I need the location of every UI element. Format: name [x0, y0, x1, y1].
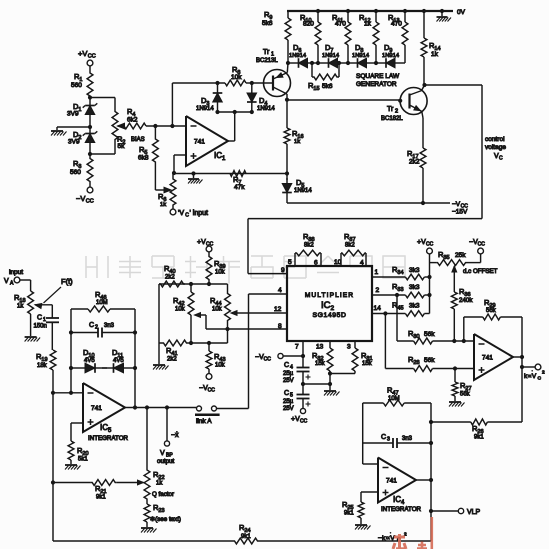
svg-text:1k: 1k	[364, 21, 372, 28]
IC3 output node	[513, 356, 522, 358]
svg-text:25µ: 25µ	[283, 371, 294, 377]
svg-text:1N914: 1N914	[294, 188, 312, 194]
transistor Tr1 BC213L	[264, 70, 291, 97]
ground stub	[191, 171, 195, 175]
svg-text:5k1: 5k1	[78, 457, 88, 463]
svg-text:−ẋ: −ẋ	[171, 432, 179, 439]
link A terminals	[197, 406, 202, 411]
svg-text:7: 7	[295, 344, 299, 351]
node D2-R3	[88, 152, 92, 156]
svg-text:3k3: 3k3	[409, 303, 420, 310]
resistor R24	[233, 538, 259, 544]
svg-text:control: control	[485, 136, 505, 143]
resistor R8	[172, 82, 225, 84]
svg-text:25k: 25k	[455, 252, 466, 259]
wire to ground	[303, 383, 330, 385]
wire	[89, 66, 91, 72]
svg-text:SQUARE LAW: SQUARE LAW	[356, 73, 400, 80]
svg-text:470: 470	[391, 21, 402, 28]
svg-text:SG1495D: SG1495D	[312, 312, 346, 319]
IC4 right rail	[416, 479, 431, 481]
svg-text:3: 3	[347, 344, 351, 351]
VLP output	[429, 509, 433, 513]
ground below R18	[25, 336, 37, 338]
diode D10	[69, 366, 73, 370]
wire to ground	[57, 126, 90, 128]
svg-text:4: 4	[290, 365, 293, 371]
svg-text:Tr: Tr	[263, 49, 270, 56]
svg-text:2: 2	[376, 287, 380, 294]
zener diode D2	[89, 143, 91, 146]
svg-text:5k6: 5k6	[262, 20, 273, 27]
capacitor C4	[302, 356, 304, 367]
resistor R19	[50, 350, 56, 370]
svg-text:2k2: 2k2	[165, 275, 175, 281]
svg-text:INTEGRATOR: INTEGRATOR	[88, 435, 129, 442]
svg-text:C: C	[284, 390, 289, 397]
wire + input to R20	[71, 422, 83, 424]
resistor R12	[374, 9, 378, 13]
svg-text:C: C	[284, 362, 289, 369]
capacitor C2	[69, 330, 73, 334]
wire D9 to R13	[404, 62, 406, 64]
node R8 feedback tap	[170, 124, 174, 128]
svg-text:CC: CC	[478, 242, 486, 248]
svg-text:−V: −V	[76, 194, 85, 203]
wire	[89, 182, 91, 187]
ground top right	[440, 9, 444, 13]
svg-text:MULTIPLIER: MULTIPLIER	[305, 292, 354, 299]
diode D4	[250, 81, 254, 85]
svg-text:25V: 25V	[283, 406, 294, 412]
resistor R43	[208, 343, 210, 351]
loop right riser	[134, 309, 136, 408]
svg-text:9k1: 9k1	[474, 435, 484, 441]
svg-text:4: 4	[278, 287, 282, 294]
svg-text:9k1: 9k1	[344, 511, 354, 517]
svg-text:8k2: 8k2	[304, 243, 314, 249]
svg-text:voltage: voltage	[485, 144, 506, 151]
svg-text:0V: 0V	[457, 9, 466, 16]
resistor R27	[454, 369, 456, 383]
resistor R4 with wiper arrow into R2	[118, 123, 125, 129]
ground	[56, 127, 58, 130]
wire	[20, 279, 31, 281]
resistor R44 trimmer	[227, 284, 229, 292]
svg-text:10k: 10k	[175, 307, 186, 313]
svg-text:C: C	[89, 322, 94, 329]
feedback resistor R47	[362, 403, 364, 464]
bias network top rail	[159, 283, 228, 285]
R22 wiper arrow from R21	[138, 480, 144, 485]
svg-text:−k∝V: −k∝V	[378, 535, 395, 542]
resistor R46	[71, 308, 88, 310]
resistor R14	[422, 9, 426, 13]
svg-text:1N914: 1N914	[382, 53, 400, 59]
svg-text:CC: CC	[264, 357, 272, 363]
svg-text:8k2: 8k2	[345, 243, 355, 249]
svg-text:CC: CC	[86, 199, 94, 205]
svg-text:2k2: 2k2	[409, 159, 420, 166]
diode D9	[374, 61, 378, 65]
svg-text:18k: 18k	[37, 363, 48, 369]
capacitor C5	[302, 384, 304, 394]
wire R5 to R6 wiper arrow	[154, 163, 156, 190]
output terminal k Vc2	[521, 357, 523, 367]
svg-text:1: 1	[43, 317, 46, 323]
svg-text:V: V	[160, 450, 165, 457]
diode D5	[286, 174, 288, 181]
svg-text:10k: 10k	[212, 307, 223, 313]
resistor R25	[358, 502, 364, 518]
svg-text:VLP: VLP	[467, 509, 481, 516]
svg-text:741: 741	[482, 355, 493, 362]
terminal -Vcc right	[478, 248, 484, 254]
svg-text:2: 2	[395, 109, 398, 115]
svg-text:V: V	[4, 278, 9, 285]
svg-text:15k: 15k	[362, 361, 373, 367]
potentiometer R22 Q factor	[144, 469, 150, 500]
svg-text:560: 560	[71, 82, 82, 89]
bottom rail to IC4 output	[430, 511, 432, 541]
potentiometer R2 BIAS	[90, 97, 115, 99]
svg-text:4V5: 4V5	[84, 358, 95, 364]
diode D7	[316, 61, 320, 65]
svg-text:820: 820	[303, 21, 314, 28]
wire + input to R25	[361, 491, 378, 493]
svg-text:k∝V: k∝V	[524, 373, 537, 380]
transistor Tr2 BC182L	[400, 88, 427, 115]
potentiometer R35 dc offset	[430, 262, 437, 264]
svg-text:3n3: 3n3	[104, 323, 115, 329]
svg-text:1: 1	[375, 269, 379, 276]
wire to R26	[521, 367, 523, 422]
svg-text:5k: 5k	[118, 143, 126, 150]
svg-text:INTEGRATOR: INTEGRATOR	[381, 506, 422, 513]
node R1-D1	[88, 95, 92, 99]
svg-text:4V5: 4V5	[113, 358, 124, 364]
svg-text:5: 5	[288, 259, 292, 266]
Vc line to multiplier pin 9	[248, 218, 482, 220]
svg-text:✱(see text): ✱(see text)	[150, 516, 181, 523]
svg-text:link A: link A	[196, 418, 212, 425]
resistor R23	[146, 500, 148, 504]
svg-text:741: 741	[386, 478, 397, 485]
svg-text:47k: 47k	[234, 184, 245, 191]
svg-text:+V: +V	[78, 49, 87, 58]
diode D3	[215, 81, 219, 85]
svg-text:BC182L: BC182L	[381, 116, 403, 122]
node Tr1 collector	[285, 98, 289, 102]
resistor R7	[230, 171, 246, 177]
svg-text:1k: 1k	[160, 202, 166, 208]
svg-text:−V: −V	[452, 201, 461, 208]
svg-text:9: 9	[281, 267, 285, 274]
terminal -Vcc below R43	[206, 374, 212, 380]
op-amp IC3	[474, 334, 513, 380]
terminal -Vcc	[87, 187, 93, 193]
op-amp IC1	[186, 116, 228, 166]
svg-text:1k: 1k	[294, 139, 300, 145]
svg-text:9k1: 9k1	[96, 495, 106, 501]
svg-text:14: 14	[374, 305, 382, 312]
multiplier IC2 SG1495D box	[287, 266, 372, 341]
svg-text:CC: CC	[426, 242, 434, 248]
wire	[172, 206, 174, 209]
svg-text:BIAS: BIAS	[131, 137, 145, 143]
resistor R39	[208, 252, 210, 256]
svg-text:13: 13	[316, 344, 324, 351]
node R5	[153, 124, 157, 128]
wire row to R7	[174, 173, 287, 175]
terminal +Vcc top-left	[87, 60, 93, 66]
terminal +Vcc below C5	[300, 408, 305, 413]
svg-text:2: 2	[95, 325, 98, 331]
svg-text:d.c OFFSET: d.c OFFSET	[463, 268, 498, 275]
diode D6	[308, 62, 319, 64]
svg-text:1k: 1k	[17, 304, 24, 310]
svg-text:3n3: 3n3	[402, 436, 413, 442]
svg-text:GENERATOR: GENERATOR	[356, 81, 397, 88]
svg-text:+V: +V	[197, 239, 206, 246]
red watermark	[393, 517, 432, 549]
svg-text:741: 741	[91, 405, 102, 412]
resistor R3	[87, 158, 93, 182]
resistor R17	[420, 148, 426, 168]
svg-text:3k3: 3k3	[409, 267, 420, 274]
svg-text:25µ: 25µ	[283, 399, 294, 405]
resistor R15 parallel D7	[311, 63, 313, 77]
capacitor C3	[363, 442, 393, 444]
-Vcc -15V rail	[287, 202, 450, 204]
wire R31 to R32 bottom	[354, 371, 356, 374]
svg-text:+V: +V	[417, 239, 426, 246]
svg-text:3V9: 3V9	[67, 111, 79, 118]
resistor R30	[397, 340, 414, 342]
svg-text:C: C	[538, 376, 542, 382]
svg-text:56k: 56k	[424, 331, 435, 338]
wire link A to pin4 riser	[217, 408, 249, 410]
resistor R21	[91, 480, 117, 486]
svg-text:Q factor: Q factor	[152, 491, 174, 498]
R22 column from output	[146, 408, 148, 470]
+Vcc column	[429, 254, 431, 314]
resistor R41	[159, 340, 191, 346]
svg-text:3V9: 3V9	[68, 139, 80, 146]
svg-text:6: 6	[314, 260, 318, 267]
svg-text:10k: 10k	[215, 270, 226, 276]
svg-text:CC: CC	[88, 54, 96, 60]
resistor R42 trimmer	[190, 284, 192, 292]
feedback tap wire to R8	[171, 83, 173, 126]
resistor R5	[154, 126, 156, 138]
resistor R11	[346, 9, 350, 13]
svg-text:25V: 25V	[283, 378, 294, 384]
wire IC1 output to diode rail	[228, 140, 235, 142]
resistor R28	[385, 368, 413, 370]
svg-text:' input: ' input	[190, 210, 209, 217]
svg-text:3k3: 3k3	[409, 284, 420, 291]
watermark gray text	[86, 256, 405, 284]
svg-text:1N914: 1N914	[352, 53, 370, 59]
svg-text:C: C	[499, 156, 503, 162]
svg-text:1N914: 1N914	[322, 53, 340, 59]
svg-text:10k: 10k	[215, 363, 226, 369]
svg-text:1k: 1k	[431, 51, 439, 58]
resistor R10	[316, 9, 320, 13]
svg-text:F(t): F(t)	[61, 277, 73, 286]
node non-inverting	[172, 171, 176, 175]
svg-text:2: 2	[542, 370, 545, 376]
svg-text:560: 560	[70, 169, 81, 176]
R18 wiper arrow	[35, 303, 42, 308]
svg-text:10M: 10M	[388, 396, 400, 402]
VBP output stub	[165, 405, 169, 409]
resistor R13	[403, 9, 407, 13]
resistor R36	[451, 292, 457, 309]
wire to IC4 inverting input	[363, 463, 378, 465]
wire D3-D4 bottom rail	[215, 110, 219, 114]
svg-text:+V: +V	[291, 416, 300, 423]
resistor R20	[68, 441, 74, 460]
resistor R38 pins 5-6	[294, 253, 296, 266]
svg-text:56k: 56k	[486, 308, 497, 314]
svg-text:15k: 15k	[315, 361, 326, 367]
svg-text:741: 741	[194, 139, 205, 146]
svg-text:6k2: 6k2	[127, 117, 138, 124]
resistor R1	[87, 72, 93, 97]
terminal +Vcc above R39	[206, 246, 212, 252]
svg-text:BC213L: BC213L	[256, 58, 278, 64]
node Tr1 emitter / diode row	[286, 61, 290, 65]
diode D8	[346, 61, 350, 65]
IC5 output node	[125, 407, 196, 409]
svg-text:−15V: −15V	[452, 209, 468, 216]
svg-text:150n: 150n	[34, 324, 47, 330]
svg-text:input: input	[9, 269, 23, 276]
svg-text:10M: 10M	[96, 300, 108, 306]
svg-text:'V: 'V	[178, 210, 184, 217]
svg-text:56k: 56k	[460, 392, 471, 398]
left rail IC5 input to bottom rail	[52, 393, 54, 541]
wire non-inverting input	[174, 154, 186, 156]
svg-text:CC: CC	[206, 242, 214, 248]
wire R4 to IC1 inverting input	[146, 125, 186, 127]
svg-text:56k: 56k	[424, 357, 435, 364]
svg-text:1N914: 1N914	[257, 106, 275, 112]
svg-text:1N914: 1N914	[289, 53, 307, 59]
node C4-C5	[301, 382, 305, 386]
svg-text:1k: 1k	[156, 481, 163, 487]
svg-text:C: C	[381, 434, 386, 441]
svg-text:470: 470	[335, 21, 346, 28]
capacitor C1	[51, 305, 53, 318]
svg-text:240k: 240k	[459, 297, 473, 304]
terminal Vc input	[170, 209, 176, 215]
zener diode D1	[89, 115, 91, 118]
feedback loop left riser	[69, 391, 73, 395]
resistor R9	[287, 11, 289, 18]
svg-text:1: 1	[271, 52, 274, 58]
resistor R37 pins 10-4	[340, 253, 342, 266]
svg-text:1N914: 1N914	[196, 106, 214, 112]
control voltage bracket wire	[425, 84, 483, 86]
wire	[89, 98, 91, 104]
svg-text:3: 3	[387, 437, 390, 443]
svg-text:Tr: Tr	[387, 106, 394, 113]
svg-text:10: 10	[334, 259, 342, 266]
potentiometer R6	[172, 173, 174, 178]
svg-text:2k2: 2k2	[167, 357, 177, 363]
svg-text:C: C	[37, 315, 42, 322]
node R14/Tr2 collector/control voltage	[422, 83, 426, 87]
svg-text:CC: CC	[300, 419, 308, 425]
svg-text:9k1: 9k1	[241, 534, 251, 540]
svg-text:5k6: 5k6	[322, 83, 333, 90]
terminal +Vcc right	[427, 248, 433, 254]
potentiometer R18	[28, 291, 34, 314]
node IC5 inverting input	[51, 391, 55, 395]
node D1-D2 with ground branch	[88, 125, 92, 129]
svg-text:12: 12	[274, 306, 282, 313]
R35 wiper to R36	[452, 266, 457, 272]
svg-text:6k8: 6k8	[138, 155, 149, 162]
feedback resistor R29	[462, 339, 466, 343]
left bias rail	[158, 284, 160, 343]
op-amp IC4 integrator	[378, 458, 416, 503]
ground below R41 rail	[158, 343, 160, 364]
0V top rail	[287, 10, 453, 12]
R30 riser from pin2 row	[395, 293, 399, 297]
svg-text:4: 4	[360, 260, 364, 267]
terminal -Vcc pin7	[283, 355, 303, 357]
svg-text:10k: 10k	[231, 74, 242, 81]
bottom rail with R24	[53, 540, 233, 542]
svg-text:output: output	[157, 458, 174, 465]
diode D11	[124, 367, 136, 369]
wire Tr1 collector to Tr2 base	[287, 99, 400, 101]
op-amp IC5 integrator	[83, 383, 125, 432]
wire to IC5 - input	[53, 392, 83, 394]
resistor R26	[471, 419, 488, 425]
resistor R16	[286, 100, 288, 128]
svg-text:CC: CC	[208, 388, 216, 394]
resistor R40	[159, 281, 185, 287]
svg-text:5: 5	[290, 393, 293, 399]
R28 riser from pin14 row	[383, 311, 387, 315]
